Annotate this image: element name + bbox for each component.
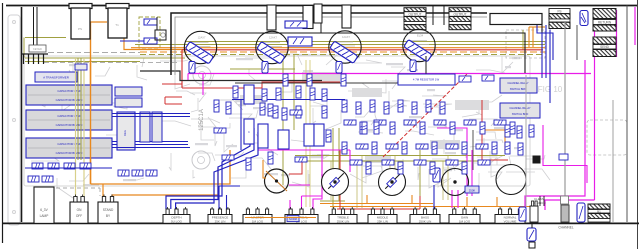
- resistor R40: [446, 144, 458, 149]
- capacitor C1: [144, 19, 157, 25]
- wire magenta mid loop: [437, 128, 467, 196]
- filter block FB2: [26, 110, 112, 130]
- resistor R49: [430, 162, 435, 174]
- wire magenta fx jog: [543, 125, 587, 183]
- resistor R45: [366, 162, 371, 174]
- wire orange pot stubs: [366, 195, 368, 204]
- module M4 tall: [140, 112, 150, 142]
- pot VOLUME: [495, 215, 525, 224]
- wire olive vertical pair overlay: [77, 58, 79, 160]
- svg-text:A TRANSFORMER: A TRANSFORMER: [43, 76, 70, 80]
- resistor R5: [296, 86, 301, 98]
- capacitor CL5: [28, 176, 39, 182]
- wire red B+ drop: [181, 50, 183, 88]
- resistor R21: [344, 120, 356, 125]
- wire heater bus olive 2: [135, 44, 545, 46]
- resistor R30: [480, 122, 485, 134]
- capacitor under V4: [410, 60, 416, 72]
- below-line stub: [529, 242, 535, 248]
- cap can above V3: [342, 5, 351, 28]
- rear pot RP3: [379, 169, 406, 196]
- svg-text:T1: T1: [115, 23, 119, 27]
- resistor R29: [464, 120, 476, 125]
- wire magenta right drop: [594, 22, 596, 200]
- wire orange tx2 drop: [124, 38, 186, 50]
- wire olive dash box tx: [139, 17, 160, 48]
- wire orange switch feed: [91, 150, 231, 184]
- wire magenta mid bus: [258, 149, 350, 151]
- wire orange relay L: [480, 130, 505, 152]
- wire blue depth loop 2: [171, 128, 254, 209]
- cap can above V2: [267, 5, 276, 30]
- switch STANDBY: [98, 202, 118, 223]
- rear pot RP5: [496, 165, 526, 195]
- transformer T1: [69, 4, 92, 9]
- wire orange tx link: [90, 21, 107, 23]
- resistor R33: [342, 142, 347, 154]
- resistor R15: [370, 100, 375, 112]
- wire grey speaker 1: [564, 22, 566, 222]
- resistor R48: [414, 160, 426, 165]
- svg-text:VOLUME: VOLUME: [504, 220, 517, 224]
- svg-text:PS: PS: [78, 27, 82, 31]
- wire grey dash mid: [44, 62, 180, 64]
- socket S2 (grey): [192, 151, 210, 169]
- wires above V4: [432, 6, 434, 26]
- wire blue depth loop 1: [166, 124, 250, 209]
- pot MASTER: [243, 215, 272, 224]
- wire orange dashed bus: [140, 51, 545, 53]
- svg-text:B1: B1: [597, 210, 601, 214]
- wire red rp1: [289, 157, 302, 174]
- svg-text:12AX7: 12AX7: [198, 36, 206, 40]
- wire grey dashed left: [48, 52, 140, 54]
- capacitor C8: [459, 76, 471, 82]
- resistor R56: [505, 142, 510, 154]
- capacitor C4f tall: [314, 124, 324, 146]
- wire blue board bus: [30, 141, 188, 143]
- pin header over crunch: [539, 196, 541, 206]
- capacitor C4d tall: [278, 130, 289, 149]
- capacitor under V3: [336, 62, 342, 74]
- cap block C3b: [285, 21, 307, 28]
- capacitor C6 capsule: [577, 203, 585, 222]
- wire red relay drop: [482, 100, 508, 160]
- wire red bottom vert: [339, 150, 341, 209]
- resistor R43: [492, 142, 497, 154]
- bottom chassis rail: [2, 222, 639, 224]
- resistor R32: [510, 122, 515, 134]
- switch clean/crunch: [530, 206, 538, 222]
- capacitor CL1: [32, 163, 43, 169]
- capacitor C4b tall: [244, 119, 254, 144]
- capacitor CM3: [146, 170, 157, 176]
- wire olive bottom verts: [332, 128, 334, 208]
- resistor R17: [398, 100, 403, 112]
- wire cream pot drops: [356, 161, 358, 208]
- terminal strip black: [155, 30, 166, 40]
- wire red B+ bus: [182, 49, 543, 51]
- svg-text:250K LIN: 250K LIN: [419, 220, 432, 224]
- wire grey stub: [576, 25, 578, 60]
- capacitor C9: [482, 75, 494, 81]
- resistor R58: [214, 100, 219, 112]
- wire magenta norm pot: [313, 150, 322, 209]
- wire blue fx elbow: [537, 24, 553, 60]
- output transformer OT1: [404, 7, 426, 30]
- resistor R62: [246, 158, 251, 170]
- svg-text:1M LOG: 1M LOG: [459, 220, 471, 224]
- resistor R2: [247, 87, 252, 99]
- resistor R66: [322, 106, 327, 118]
- wire red mid horiz: [182, 82, 340, 88]
- pot TREBLE: [329, 215, 357, 224]
- resistor R69: [374, 122, 379, 134]
- svg-text:FS: FS: [557, 10, 561, 14]
- capacitor C2: [144, 38, 157, 44]
- resistor R25: [404, 120, 416, 125]
- resistor R13: [342, 100, 347, 112]
- can above caps 2: [314, 4, 322, 23]
- top chassis rail: [6, 5, 638, 7]
- wire orange mains vertical: [90, 22, 92, 184]
- dashed zone relay: [587, 120, 627, 155]
- resistor R70: [283, 74, 288, 86]
- resistor R51: [462, 162, 467, 174]
- jack FS: [549, 8, 570, 30]
- jack RETURN: [593, 8, 616, 32]
- wire orange standby pins: [102, 184, 104, 198]
- resistor R52: [478, 160, 490, 165]
- resistor R10: [296, 106, 301, 118]
- wire olive right vert: [522, 30, 524, 50]
- filter block FB1: [26, 85, 112, 105]
- svg-text:CHANNEL: CHANNEL: [558, 226, 573, 230]
- output transformer OT2: [449, 7, 471, 30]
- wire blue cap link: [120, 40, 144, 42]
- svg-text:LAMP: LAMP: [40, 214, 49, 218]
- rear pot RP4: [442, 169, 469, 196]
- pot NORMAL VOL: [285, 215, 318, 224]
- cap block C3: [288, 37, 312, 46]
- wire blue board link 2: [112, 147, 190, 149]
- rear pot RP2: [322, 169, 349, 196]
- wire blue fx verts: [541, 25, 543, 78]
- svg-text:25K LIN: 25K LIN: [377, 220, 388, 224]
- wire olive dashed bus: [140, 54, 545, 56]
- transformer T2: [106, 4, 129, 9]
- resistor R50: [446, 160, 458, 165]
- chassis inner wall: [175, 17, 487, 75]
- relay module RM1: [500, 78, 537, 93]
- svg-text:CHANNEL RELAY: CHANNEL RELAY: [509, 106, 531, 110]
- resistor R37: [402, 142, 407, 154]
- wire blue depth loop 3: [176, 132, 258, 209]
- capacitor C4e tall: [304, 124, 314, 146]
- svg-text:RETURN: RETURN: [598, 21, 612, 25]
- resistor R68: [362, 122, 367, 134]
- resistor R6: [310, 88, 315, 100]
- resistor R46: [382, 160, 394, 165]
- resistor R55: [529, 125, 534, 137]
- resistor R24: [390, 122, 395, 134]
- resistor R41: [462, 142, 467, 154]
- capacitor CL2: [48, 163, 59, 169]
- capacitor under V1: [189, 62, 195, 74]
- wire olive left horiz 2: [25, 61, 140, 63]
- wire cream mid pair: [305, 60, 307, 207]
- resistor R8: [268, 104, 273, 116]
- ground bus 2: [235, 82, 420, 84]
- resistor R34: [356, 144, 368, 149]
- chassis big box right: [490, 14, 542, 25]
- resistor R9: [282, 108, 287, 120]
- wire cream pair onoff: [75, 58, 77, 198]
- svg-text:OUTPUT: OUTPUT: [408, 12, 421, 16]
- pot PRESENCE: [208, 215, 232, 224]
- resistor R4: [276, 88, 281, 100]
- wire cream pair overlay: [75, 58, 77, 198]
- wire orange pot bus 1: [320, 203, 433, 205]
- resistor R65: [290, 110, 302, 115]
- resistor R3: [262, 89, 267, 101]
- resistor R7: [322, 89, 327, 101]
- wire dark vline right: [472, 130, 474, 170]
- tube V2: [256, 31, 288, 63]
- resistor R64: [273, 106, 278, 118]
- svg-text:SWITCH BRD: SWITCH BRD: [510, 87, 527, 91]
- wire blue cap bus: [25, 167, 112, 169]
- resistor R35: [372, 142, 377, 154]
- svg-text:CAPACITOR 47uF: CAPACITOR 47uF: [57, 142, 81, 146]
- svg-text:CAPACITOR 47uF: CAPACITOR 47uF: [57, 89, 81, 93]
- wire orange fx verts: [528, 27, 530, 47]
- pcb copper trace texture (decorative grey): [29, 47, 550, 198]
- wire magenta vol link: [525, 60, 585, 209]
- svg-text:25K LIN: 25K LIN: [215, 220, 226, 224]
- resistor R38: [416, 144, 428, 149]
- resistor R59: [226, 102, 231, 114]
- wire orange bus: [131, 47, 545, 49]
- capacitor C4c tall: [258, 124, 268, 148]
- resistor R47: [398, 162, 403, 174]
- svg-text:OUTPUT: OUTPUT: [453, 12, 466, 16]
- wire olive left horiz 1: [25, 57, 185, 59]
- resistor R11: [295, 157, 307, 162]
- resistor R39: [432, 142, 437, 154]
- dashed zone fx loop: [506, 30, 545, 58]
- resistor R60: [214, 128, 226, 133]
- capacitor C5: [519, 207, 526, 221]
- resistor R23: [374, 120, 386, 125]
- resistor R53: [505, 125, 510, 137]
- resistor R67: [326, 130, 331, 142]
- svg-text:SEND: SEND: [600, 45, 610, 49]
- resistor R63: [260, 103, 265, 115]
- wire pair to keyed box: [33, 7, 35, 45]
- resistor R54: [517, 126, 522, 138]
- module M1: [115, 87, 142, 96]
- wire orange pot bus 2: [330, 206, 530, 208]
- resistor R42: [476, 144, 488, 149]
- wire magenta rp1: [289, 184, 310, 186]
- wire heater bus olive 1: [185, 41, 545, 43]
- svg-text:12AX7: 12AX7: [342, 35, 350, 39]
- socket S1 (grey): [193, 66, 211, 84]
- wire magenta main bus: [188, 73, 591, 75]
- resistor R28: [450, 122, 455, 134]
- wire olive pair bottom: [295, 155, 505, 157]
- svg-text:6_3V: 6_3V: [40, 208, 48, 212]
- jack SEND: [593, 37, 616, 58]
- capacitor CM2: [132, 170, 143, 176]
- jack small: [561, 205, 569, 222]
- svg-text:125C1A: 125C1A: [199, 109, 205, 131]
- left border line: [2, 3, 4, 243]
- resistor R12: [268, 152, 273, 164]
- capacitor CL6: [42, 176, 53, 182]
- svg-text:250K: 250K: [469, 189, 476, 193]
- tube V1: [184, 31, 216, 63]
- can above caps: [303, 6, 313, 29]
- chassis left panel outline: [8, 15, 20, 225]
- resistor R72: [341, 74, 346, 86]
- resistor R36: [386, 144, 398, 149]
- wire olive vertical pair: [77, 58, 79, 160]
- wire olive mid link: [230, 68, 295, 70]
- resistor R14: [356, 102, 361, 114]
- wire blue presence: [219, 185, 240, 187]
- jack footswitch: [588, 204, 610, 209]
- resistor R20: [440, 102, 445, 114]
- wire magenta gain drop: [187, 74, 189, 81]
- resistor R44: [350, 160, 362, 165]
- svg-text:C: C: [248, 131, 250, 134]
- resistor R19: [426, 100, 431, 112]
- svg-text:REG: REG: [123, 130, 127, 136]
- wire red pot link: [337, 208, 420, 210]
- module M3 tall: [117, 112, 135, 150]
- wire orange mains overlay: [90, 60, 92, 184]
- resistor R22: [360, 122, 365, 134]
- pot GAIN: [449, 215, 480, 224]
- svg-text:EL34: EL34: [417, 34, 424, 38]
- wire olive pot drop: [419, 150, 421, 196]
- resistor R27: [434, 120, 446, 125]
- wire red dashed diagonal: [383, 74, 467, 157]
- capacitor under V2: [262, 62, 268, 74]
- wire orange pot row: [245, 217, 316, 219]
- module M5 tall: [152, 112, 162, 142]
- relay module RM2: [500, 103, 540, 118]
- lamp 6.3V: [34, 187, 54, 223]
- svg-text:STAND: STAND: [103, 208, 114, 212]
- terminal strip TB1: [22, 53, 48, 55]
- svg-text:12AX7: 12AX7: [269, 36, 277, 40]
- svg-text:4 7M RESISTOR 1W: 4 7M RESISTOR 1W: [413, 78, 440, 82]
- module small over board: [75, 64, 87, 70]
- wire magenta far right: [634, 7, 636, 45]
- wire magenta ch link: [545, 200, 595, 210]
- wire blue center bus: [232, 99, 345, 101]
- capacitor CM1: [118, 170, 129, 176]
- right border line: [637, 0, 639, 249]
- pot DEPTH: [163, 215, 190, 224]
- wire magenta send drop: [616, 10, 618, 57]
- resistor R1: [233, 86, 238, 98]
- tube V4: [403, 29, 435, 61]
- resistor R18: [412, 102, 417, 114]
- svg-text:OFF: OFF: [76, 214, 82, 218]
- wire olive left L: [25, 37, 66, 39]
- pot BASS: [410, 215, 440, 224]
- wire blue board link 1: [112, 113, 190, 115]
- svg-text:CAPACITOR 47uF: CAPACITOR 47uF: [57, 114, 81, 118]
- wire orange rp1: [263, 160, 266, 178]
- main pcb outline: [24, 56, 530, 186]
- rear pot RP1: [265, 169, 289, 193]
- wire red board tap: [165, 96, 182, 98]
- svg-text:KEYED: KEYED: [33, 47, 42, 51]
- svg-text:5U LOG: 5U LOG: [171, 220, 183, 224]
- terminal box: [29, 45, 46, 52]
- pot MIDDLE: [368, 215, 397, 224]
- svg-text:250K LIN: 250K LIN: [337, 220, 350, 224]
- left chassis edge: [21, 7, 23, 222]
- resistor R31: [494, 120, 506, 125]
- gain value tag: [465, 186, 479, 193]
- board label box: [35, 72, 77, 82]
- tube V3: [329, 31, 361, 63]
- wire red pot stub: [419, 196, 421, 209]
- capacitor C4 tall: [244, 85, 254, 104]
- plate rail: [209, 33, 525, 73]
- svg-text:1M LOG: 1M LOG: [252, 220, 264, 224]
- fx relay capsule: [580, 11, 588, 26]
- resistor R71: [307, 74, 312, 86]
- capacitor CL3: [64, 163, 75, 169]
- wire black plate stub: [425, 56, 427, 74]
- resistor R57: [518, 143, 523, 155]
- chassis box top: [171, 13, 487, 75]
- wire grey speaker 2: [525, 75, 527, 222]
- svg-text:ON: ON: [77, 208, 82, 212]
- wire black can drop: [320, 6, 322, 34]
- capacitor C7 small: [559, 154, 568, 160]
- long resistor block: [398, 74, 455, 85]
- switch ON/OFF: [70, 202, 88, 223]
- capacitor CL4: [80, 163, 91, 169]
- resistor R61: [222, 155, 234, 160]
- below-line capsule: [527, 228, 536, 241]
- dashed lamp wire: [42, 187, 100, 189]
- module M2: [115, 98, 142, 107]
- resistor R26: [420, 122, 425, 134]
- wire blue crunch vert: [433, 185, 435, 210]
- resistor R16: [384, 102, 389, 114]
- ground bus 1: [140, 71, 322, 81]
- filter block FB3: [26, 138, 112, 158]
- wire grey jack line: [612, 100, 614, 222]
- right inner vline: [626, 6, 628, 223]
